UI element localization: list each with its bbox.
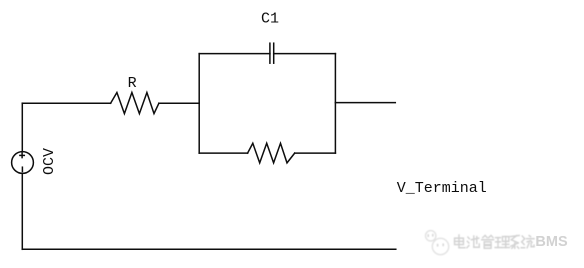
wire: left vertical, top segment (node between source and R) [21, 103, 23, 151]
svg-text:OCV: OCV [41, 148, 58, 175]
svg-text:R: R [128, 75, 137, 92]
wire: bottom rail [22, 248, 396, 250]
wire: source node to resistor R [22, 102, 110, 104]
polarity mark + [20, 153, 24, 157]
voltage source OCV [12, 152, 34, 174]
管 [482, 236, 494, 249]
capacitor C1 [270, 43, 274, 63]
wire: capacitor to tank top right [274, 53, 336, 55]
wire: left vertical, bottom segment [21, 174, 23, 250]
resistor R [111, 93, 159, 114]
wire: tank top left to capacitor [199, 53, 270, 55]
wire: tank right vertical [334, 54, 336, 154]
wire: tank resistor to bottom right [295, 152, 336, 154]
池 [467, 236, 479, 248]
统 [521, 236, 534, 248]
电 [455, 235, 465, 248]
wire: resistor R to RC tank node [159, 102, 199, 104]
wire: output to V_Terminal [335, 102, 395, 104]
理 [495, 237, 509, 248]
polarity mark - [21, 167, 23, 171]
系 [510, 236, 519, 249]
watermark logo [426, 231, 449, 255]
svg-text:V_Terminal: V_Terminal [397, 180, 487, 197]
wire: tank left vertical [198, 54, 200, 154]
wire: tank bottom left to resistor [199, 152, 247, 154]
svg-text:BMS: BMS [535, 234, 568, 250]
watermark text 电池管理系统BMS [455, 235, 535, 248]
svg-text:C1: C1 [261, 10, 279, 27]
resistor (RC tank, no designator shown) [248, 143, 295, 163]
